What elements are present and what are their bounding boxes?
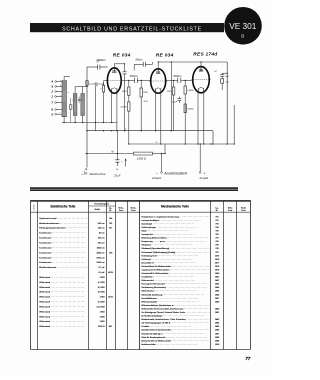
svg-text:Abstimmkondensator · · · · · ·: Abstimmkondensator · · · · · · · · · · ·…	[39, 222, 93, 225]
svg-text:Anodenbatterie: Anodenbatterie	[163, 171, 187, 175]
svg-text:SCHALTBILD UND ERSATZTEIL-STÜC: SCHALTBILD UND ERSATZTEIL-STÜCKLISTE	[62, 25, 202, 32]
svg-text:1490: 1490	[215, 308, 219, 310]
svg-text:Widerstand · · · · · · · · · ·: Widerstand · · · · · · · · · · · · · · ·…	[39, 301, 84, 304]
svg-text:1479: 1479	[215, 269, 219, 271]
svg-text:782: 782	[215, 220, 218, 222]
svg-text:Netzbuchse: Netzbuchse	[89, 172, 106, 176]
svg-text:0,2 MΩ: 0,2 MΩ	[98, 287, 105, 289]
svg-text:Lautsprecher · · · · · · · · ·: Lautsprecher · · · · · · · · · · · · · ·…	[141, 233, 195, 236]
svg-text:Rückwand · · · · · · · · · · ·: Rückwand · · · · · · · · · · · · · · · ·…	[141, 245, 192, 247]
svg-text:1498: 1498	[215, 337, 219, 339]
svg-text:+με: +με	[214, 70, 217, 72]
svg-text:500cm: 500cm	[135, 59, 142, 62]
svg-text:schwarz: schwarz	[152, 176, 162, 180]
svg-text:Widerstand · · · · · · · · · ·: Widerstand · · · · · · · · · · · · · · ·…	[39, 296, 84, 299]
svg-text:5000 cm: 5000 cm	[97, 257, 105, 259]
svg-text:1500 Ω: 1500 Ω	[137, 157, 147, 161]
svg-text:Kondensator · · · · · · · · ·: Kondensator · · · · · · · · · · · · · · …	[39, 251, 85, 254]
svg-text:0,1 MΩ: 0,1 MΩ	[98, 282, 105, 284]
svg-text:1491: 1491	[215, 312, 219, 314]
svg-text:b: b	[60, 85, 61, 87]
svg-text:RE 034: RE 034	[113, 53, 131, 59]
svg-text:783: 783	[215, 223, 218, 225]
svg-text:786: 786	[215, 234, 218, 236]
svg-text:m: m	[82, 174, 84, 176]
svg-text:1 MΩ: 1 MΩ	[100, 297, 105, 299]
svg-text:Preis: Preis	[228, 209, 232, 212]
svg-text:2 MΩ: 2 MΩ	[100, 277, 105, 279]
svg-text:−: −	[156, 171, 158, 175]
svg-text:790: 790	[215, 248, 218, 250]
svg-text:Verkleidung für B · · · · · ·: Verkleidung für B · · · · · · · · · · · …	[141, 255, 198, 257]
svg-text:1488: 1488	[215, 301, 219, 303]
svg-text:Gewindestift 1484 kg m. · · ·: Gewindestift 1484 kg m. · · · · · · · · …	[141, 332, 204, 335]
svg-text:Abstandsrollen für Wellenschal: Abstandsrollen für Wellenschalter · · · …	[141, 339, 213, 342]
svg-text:Widerstand · · · · · · · · · ·: Widerstand · · · · · · · · · · · · · · ·…	[39, 320, 84, 323]
svg-text:1497: 1497	[215, 333, 219, 335]
svg-text:100 cm: 100 cm	[98, 238, 105, 240]
svg-text:2μF: 2μF	[224, 76, 229, 78]
svg-text:e: e	[59, 113, 60, 115]
svg-text:Kondensator · · · · · · · · ·: Kondensator · · · · · · · · · · · · · · …	[39, 237, 85, 240]
svg-text:785: 785	[215, 230, 218, 232]
svg-text:1475: 1475	[215, 255, 219, 257]
svg-text:Abdeckung (Seitenverkleid.) ·: Abdeckung (Seitenverkleid.) · · · · · · …	[141, 237, 208, 240]
svg-text:Widerstand · · · · · · · · · ·: Widerstand · · · · · · · · · · · · · · ·…	[39, 310, 84, 313]
svg-text:4000 cm: 4000 cm	[97, 252, 105, 254]
svg-text:1495: 1495	[215, 326, 219, 328]
svg-text:0,3 MΩ: 0,3 MΩ	[98, 292, 105, 294]
svg-text:1478: 1478	[215, 266, 219, 268]
svg-text:200 cm: 200 cm	[98, 243, 105, 245]
svg-text:0,2MΩ: 0,2MΩ	[187, 90, 194, 92]
svg-text:Preis: Preis	[241, 209, 245, 212]
svg-text:Kontaktfeder · · · · · · · · ·: Kontaktfeder · · · · · · · · · · · · · ·…	[141, 276, 194, 279]
svg-text:Widerstand · · · · · · · · · ·: Widerstand · · · · · · · · · · · · · · ·…	[39, 305, 84, 308]
svg-text:77: 77	[245, 356, 250, 361]
svg-text:Rückwand (Spezialausführung) ·: Rückwand (Spezialausführung) · · · · · ·…	[141, 248, 211, 250]
svg-text:Widerstand · · · · · · · · · ·: Widerstand · · · · · · · · · · · · · · ·…	[39, 281, 84, 284]
svg-text:500 cm: 500 cm	[98, 223, 105, 225]
svg-text:Steckfassung (Netzbuchse) · ·: Steckfassung (Netzbuchse) · · · · · · · …	[141, 286, 207, 289]
svg-text:Skala · · · · · · · · · · · ·: Skala · · · · · · · · · · · · · · · · · …	[141, 230, 188, 232]
svg-text:1499: 1499	[215, 340, 219, 342]
svg-text:Lautsprecherklappe · · · · · ·: Lautsprecherklappe · · · · · · · · · · ·…	[141, 219, 200, 222]
svg-text:1483: 1483	[215, 284, 219, 286]
svg-text:Klinkenstift, Ausführung · · ·: Klinkenstift, Ausführung · · · · · · · ·…	[141, 293, 204, 296]
svg-text:0,1MΩ: 0,1MΩ	[120, 107, 127, 109]
svg-text:Blockkondensator · · · · · · ·: Blockkondensator · · · · · · · · · · · ·…	[39, 266, 90, 269]
svg-text:5000cm: 5000cm	[130, 76, 138, 78]
svg-text:Kondensator · · · · · · · · ·: Kondensator · · · · · · · · · · · · · · …	[39, 232, 85, 235]
svg-text:781: 781	[215, 216, 218, 218]
svg-text:Mechanische Teile: Mechanische Teile	[161, 205, 189, 209]
svg-text:6800cm: 6800cm	[97, 58, 107, 62]
svg-text:0,15 MΩ: 0,15 MΩ	[97, 306, 105, 308]
svg-text:Spindelscheibe für Antriebswel: Spindelscheibe für Antriebswellen · · · …	[141, 329, 213, 332]
svg-text:2000 cm: 2000 cm	[97, 247, 105, 249]
svg-text:1500: 1500	[215, 344, 219, 346]
svg-text:1MΩ: 1MΩ	[143, 92, 148, 94]
svg-text:1 MΩ: 1 MΩ	[100, 311, 105, 313]
svg-text:Widerstand · · · · · · · · · ·: Widerstand · · · · · · · · · · · · · · ·…	[39, 276, 84, 279]
svg-text:1476: 1476	[215, 259, 219, 261]
svg-text:Steckschlüssel für Wellenschal: Steckschlüssel für Wellenschalter · · · …	[141, 265, 213, 268]
svg-text:1493: 1493	[215, 319, 219, 321]
svg-text:Widerstand · · · · · · · · · ·: Widerstand · · · · · · · · · · · · · · ·…	[39, 286, 84, 289]
svg-text:1496: 1496	[215, 330, 219, 332]
svg-text:2: 2	[50, 90, 53, 94]
svg-text:VE 301: VE 301	[229, 21, 257, 31]
svg-text:0,1μF: 0,1μF	[172, 102, 178, 104]
svg-text:26: 26	[155, 142, 158, 144]
svg-text:Ersatzteilangaben: Ersatzteilangaben	[95, 203, 109, 206]
svg-text:1485: 1485	[215, 291, 219, 293]
svg-text:787: 787	[215, 238, 218, 240]
svg-text:Holzgehäuse m. eingebauter Bes: Holzgehäuse m. eingebauter Bespannung · …	[141, 215, 220, 218]
svg-text:Widerstand · · · · · · · · · ·: Widerstand · · · · · · · · · · · · · · ·…	[39, 325, 84, 328]
svg-text:Lagerbuchse für Wellenschalter: Lagerbuchse für Wellenschalter · · · · ·…	[141, 268, 211, 271]
svg-text:Fassung für Röhrensockel · · ·: Fassung für Röhrensockel · · · · · · · ·…	[141, 284, 206, 286]
svg-text:Widerstandsdraht · · · · · · ·: Widerstandsdraht · · · · · · · · · · · ·…	[141, 300, 199, 303]
svg-text:1482: 1482	[215, 280, 219, 282]
svg-text:B: B	[241, 34, 244, 39]
svg-text:Drehknopf · · · · · · · · · ·: Drehknopf · · · · · · · · · · · · · · · …	[141, 259, 192, 261]
svg-text:Lfd.Nr.: Lfd.Nr.	[34, 204, 36, 211]
svg-text:1 MΩ: 1 MΩ	[100, 321, 105, 323]
svg-text:Widerstand · · · · · · · · · ·: Widerstand · · · · · · · · · · · · · · ·…	[39, 315, 84, 318]
svg-text:1481: 1481	[215, 277, 219, 279]
svg-text:100 cm: 100 cm	[98, 228, 105, 230]
svg-text:Drehknopfzeiger · · · · · · ·: Drehknopfzeiger · · · · · · · · · · · · …	[141, 227, 198, 229]
svg-text:0,3MΩ: 0,3MΩ	[187, 108, 194, 110]
svg-text:1MΩ: 1MΩ	[167, 91, 172, 93]
svg-text:Antriebsscheibe · · · · · · ·: Antriebsscheibe · · · · · · · · · · · · …	[141, 343, 197, 346]
svg-text:Klinkenbuchse · · · · · · · ·: Klinkenbuchse · · · · · · · · · · · · · …	[141, 291, 196, 293]
svg-text:Kontakte · · · · · · · · · · ·: Kontakte · · · · · · · · · · · · · · · ·…	[141, 325, 191, 328]
svg-text:Elektrische Teile: Elektrische Teile	[51, 205, 76, 209]
svg-text:RE 034: RE 034	[156, 53, 174, 59]
svg-text:Schutzwand (Teilbefestigung) (: Schutzwand (Teilbefestigung) (3-teilig) …	[141, 251, 217, 254]
svg-text:Ausschalter B · · · · · · · ·: Ausschalter B · · · · · · · · · · · · · …	[141, 261, 195, 264]
svg-text:c: c	[60, 95, 61, 97]
svg-text:Anschlußklemme · · · · · · · ·: Anschlußklemme · · · · · · · · · · · · ·…	[141, 297, 198, 300]
svg-text:RES 174d: RES 174d	[193, 51, 218, 57]
svg-text:1487: 1487	[215, 298, 219, 300]
svg-text:für Rundfunkempfänger · · · ·: für Rundfunkempfänger · · · · · · · · · …	[141, 316, 204, 318]
svg-text:1477: 1477	[215, 262, 219, 264]
svg-text:791: 791	[215, 252, 218, 254]
svg-text:Spannbügel · · · · · · · · · ·: Spannbügel · · · · · · · · · · · · · · ·…	[141, 223, 194, 225]
svg-text:1500 Ω: 1500 Ω	[98, 326, 105, 328]
svg-text:mit Vierkantprägungen 78 385: mit Vierkantprägungen 78 385 B · · · · ·…	[141, 322, 212, 325]
svg-text:1486: 1486	[215, 294, 219, 296]
svg-text:788: 788	[215, 241, 218, 243]
svg-text:+: +	[203, 172, 205, 176]
svg-text:5000 cm: 5000 cm	[97, 262, 105, 264]
svg-text:80 cm: 80 cm	[99, 233, 105, 235]
svg-text:Schraubstift für Wellenschalte: Schraubstift für Wellenschalter · · · · …	[141, 272, 210, 275]
svg-text:25 μF: 25 μF	[113, 174, 121, 177]
svg-text:Kondensator · · · · · · · · ·: Kondensator · · · · · · · · · · · · · · …	[39, 242, 85, 245]
svg-text:2MΩ: 2MΩ	[121, 91, 127, 93]
svg-text:1480: 1480	[215, 273, 219, 275]
svg-text:Röhrensockel · · · · · · · · ·: Röhrensockel · · · · · · · · · · · · · ·…	[141, 280, 195, 282]
svg-text:Kondensator · · · · · · · · ·: Kondensator · · · · · · · · · · · · · · …	[39, 256, 85, 259]
svg-text:Kondensator · · · · · · · · ·: Kondensator · · · · · · · · · · · · · · …	[39, 261, 85, 264]
svg-text:Kondensator · · · · · · · · ·: Kondensator · · · · · · · · · · · · · · …	[39, 246, 85, 249]
svg-text:-13 gelb: -13 gelb	[199, 176, 209, 180]
svg-text:789: 789	[215, 245, 218, 247]
svg-text:0,1 MΩ: 0,1 MΩ	[98, 302, 105, 304]
svg-text:Skala für Empfangsbereich · ·: Skala für Empfangsbereich · · · · · · · …	[141, 337, 207, 339]
svg-text:Preis: Preis	[131, 209, 135, 212]
svg-text:Preis: Preis	[119, 209, 123, 212]
svg-text:5000cm: 5000cm	[173, 76, 181, 78]
svg-text:Bespannung . . . . . . pro m ·: Bespannung . . . . . . pro m · · · · · ·…	[141, 241, 206, 243]
svg-text:Widerstand · · · · · · · · · ·: Widerstand · · · · · · · · · · · · · · ·…	[39, 291, 84, 294]
svg-text:Spulensatz kompl. · · · · · ·: Spulensatz kompl. · · · · · · · · · · · …	[39, 217, 91, 220]
svg-text:21: 21	[124, 129, 127, 131]
svg-text:Gr: Gr	[116, 169, 119, 171]
svg-text:a: a	[60, 80, 61, 82]
svg-text:0,1 μF: 0,1 μF	[99, 267, 106, 269]
svg-text:2 MΩ: 2 MΩ	[100, 316, 105, 318]
svg-text:Größe: Größe	[94, 209, 101, 211]
svg-text:4,5V: 4,5V	[144, 100, 149, 103]
svg-text:Widerstandskörper (Spulenkörpe: Widerstandskörper (Spulenkörper m. · · ·…	[141, 304, 216, 307]
svg-text:0,5 μF: 0,5 μF	[99, 272, 106, 274]
